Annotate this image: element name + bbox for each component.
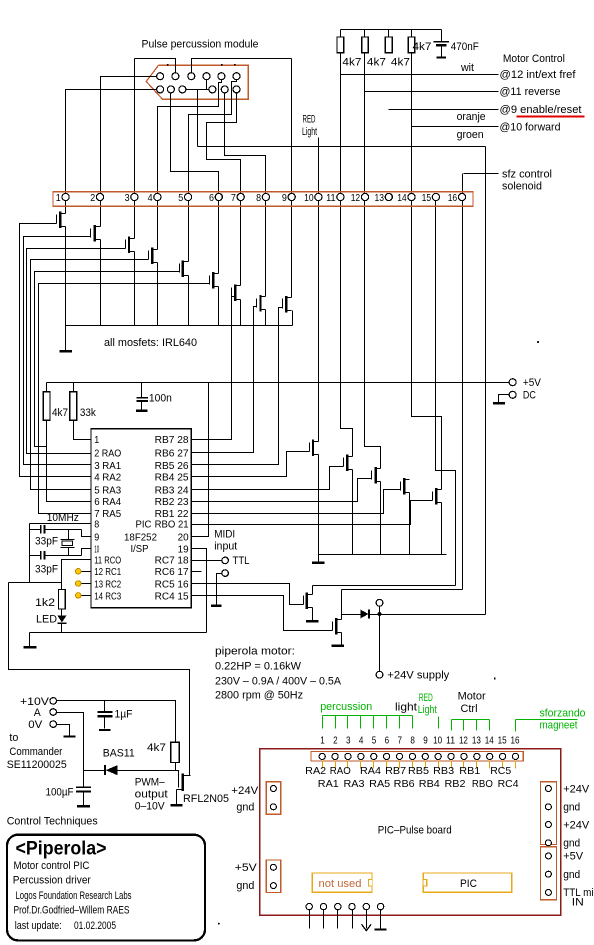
wire: PIC pin 16 RC5 to M15 gate xyxy=(192,584,304,605)
resistor R3 4k7 top lead xyxy=(388,30,390,37)
wire: PIC pin 8 VSS to crystal ground column xyxy=(30,523,91,525)
svg-text:01.02.2005: 01.02.2005 xyxy=(74,920,116,932)
wire: M9 source to bus xyxy=(292,311,294,326)
svg-text:10MHz: 10MHz xyxy=(47,512,79,524)
ground under M1 source (mosfet source bus ground) xyxy=(59,350,72,353)
svg-text:RBO: RBO xyxy=(472,778,493,790)
connector strip 1-16 outline xyxy=(53,192,473,207)
connector strip pin circles 1-16 xyxy=(62,193,69,200)
capacitor C4 100n top lead xyxy=(141,383,143,398)
svg-text:11: 11 xyxy=(326,192,336,204)
wire: PIC pin 11 RC0 to LED resistor xyxy=(62,560,91,590)
node: crystal ground to PWM ground link xyxy=(9,582,62,584)
svg-text:13 RC2: 13 RC2 xyxy=(94,578,121,590)
capacitor C5 470nF top lead xyxy=(441,30,443,42)
capacitor C4 100n plates xyxy=(136,397,148,399)
svg-text:4k7: 4k7 xyxy=(391,56,410,68)
wire: M12 gate to PIC pin 23 RB2 xyxy=(192,479,372,502)
module connector bottom row pin circles B1-B6 xyxy=(157,86,164,93)
capacitor C5 bottom lead and end bar xyxy=(441,46,443,58)
svg-text:Percussion driver: Percussion driver xyxy=(13,874,91,886)
svg-text:PIC: PIC xyxy=(136,519,152,531)
wire: C1 to PIC pin 9 OSC1 xyxy=(82,530,91,537)
capacitor C6 1uF plates xyxy=(98,711,113,713)
svg-text:piperola motor:: piperola motor: xyxy=(215,645,295,657)
wire: source bus for M10-M14 xyxy=(319,554,447,556)
svg-text:gnd: gnd xyxy=(236,802,254,814)
green bracket percussion pins 1-8 xyxy=(323,715,413,717)
svg-text:11: 11 xyxy=(446,734,455,746)
wire: M14 source to bus xyxy=(441,503,443,555)
board right connector block 1 xyxy=(540,782,556,845)
wire: PIC pin 15 RC4 to M16 gate xyxy=(192,596,333,631)
svg-text:RED: RED xyxy=(419,692,433,704)
wire: PIC pin 20 MIDI input from +5V rail xyxy=(192,383,209,537)
wire: 0V to ground xyxy=(57,725,70,736)
svg-text:to: to xyxy=(9,732,18,744)
svg-text:oranje: oranje xyxy=(457,111,486,123)
svg-text:1µF: 1µF xyxy=(115,708,133,720)
svg-text:RAO: RAO xyxy=(330,765,351,777)
svg-text:RA3: RA3 xyxy=(344,778,365,790)
svg-text:RBO 21: RBO 21 xyxy=(155,519,189,531)
wire: M14 gate to PIC pin 21 RB0 xyxy=(192,501,433,525)
svg-text:11 RCO: 11 RCO xyxy=(94,555,121,567)
ground under M15 xyxy=(306,620,319,623)
wire: Q1 source to ground xyxy=(176,790,178,805)
svg-text:8: 8 xyxy=(256,192,261,204)
svg-text:6 RA4: 6 RA4 xyxy=(94,496,121,508)
green bracket motor ctrl pins 11-14 xyxy=(452,719,490,721)
wire: RA4 pullup node down to PIC pin 6 RA4 xyxy=(47,421,91,502)
module connector top row pin circles T1-T6 xyxy=(157,73,164,80)
chip socket: PIC xyxy=(423,873,511,892)
capacitor C7 100uF plates xyxy=(76,786,91,788)
wire: @12 int/ext fref line from R1 / strip pin 11 xyxy=(341,74,499,76)
svg-text:RA4: RA4 xyxy=(360,765,381,777)
svg-text:gnd: gnd xyxy=(563,802,580,814)
mosfet M3 IRL640 xyxy=(126,237,135,254)
capacitor C5 470nF plates xyxy=(433,41,449,43)
svg-text:1k2: 1k2 xyxy=(35,597,55,609)
svg-text:8: 8 xyxy=(410,734,415,746)
wire: M7 gate to PIC pin 28 RB7 xyxy=(231,296,233,298)
wire: TTL return to ground xyxy=(217,574,222,605)
mosfet M14 IRL640 xyxy=(433,488,442,505)
svg-text:9: 9 xyxy=(94,532,99,544)
ground under C7 100uF xyxy=(77,805,90,807)
svg-text:RB4: RB4 xyxy=(419,778,440,790)
terminal circle +10V xyxy=(50,698,57,705)
svg-text:wit: wit xyxy=(460,62,474,74)
wire: strip pin 16 down to sforzando mosfet M16 drain rail xyxy=(462,174,464,590)
wire: pin T6 jog down-left to strip pin 5 (node P5) xyxy=(189,80,237,262)
wire: M6 source to bus xyxy=(218,287,220,326)
wire: sfz control line to strip pin 16 xyxy=(464,173,499,175)
mosfet M8 IRL640 xyxy=(257,295,266,312)
diode D1 BAS11 xyxy=(104,765,106,775)
svg-text:RB3 24: RB3 24 xyxy=(155,484,189,496)
svg-text:0–10V: 0–10V xyxy=(135,800,166,812)
svg-text:input: input xyxy=(214,540,237,552)
svg-text:RB2 23: RB2 23 xyxy=(155,496,189,508)
terminal circle TTL xyxy=(222,557,229,564)
svg-text:6: 6 xyxy=(209,192,214,204)
terminal circle above +24V junction xyxy=(379,607,381,613)
wire: @9 enable/reset line from R3 / strip pin 13 xyxy=(389,109,499,111)
orange pin ticks xyxy=(322,761,324,769)
svg-text:7: 7 xyxy=(231,192,236,204)
svg-text:100µF: 100µF xyxy=(46,787,74,799)
svg-text:2: 2 xyxy=(333,734,338,746)
wire: M7 source to bus xyxy=(240,300,242,326)
svg-text:8: 8 xyxy=(94,519,99,531)
mosfet M16 IRL640 xyxy=(333,618,342,635)
wire: groen net down right side to flyback diode line xyxy=(485,147,487,615)
stray dot right of title box xyxy=(218,923,220,925)
svg-text:4k7: 4k7 xyxy=(52,407,68,419)
svg-text:12: 12 xyxy=(351,192,361,204)
svg-text:10: 10 xyxy=(433,734,442,746)
svg-text:+5V: +5V xyxy=(563,851,584,863)
wire: M4 gate to PIC pin 5 RA3 xyxy=(31,260,149,490)
svg-text:DC: DC xyxy=(523,390,536,402)
svg-text:5: 5 xyxy=(178,192,183,204)
resistor R2 4k7 xyxy=(362,37,369,53)
wire: M13 gate to PIC pin 22 RB1 xyxy=(192,490,401,514)
mosfet M7 IRL640 xyxy=(232,284,241,301)
wire: digital ground rail xyxy=(30,632,207,634)
svg-text:PWM–: PWM– xyxy=(135,776,166,788)
svg-text:0.22HP = 0.16kW: 0.22HP = 0.16kW xyxy=(215,660,302,672)
wire: PIC pin 18 RC7 to TTL terminal xyxy=(192,560,222,562)
resistor R4 4k7 xyxy=(408,37,415,53)
wire: strip pin 15 down to mosfet M15 drain rail xyxy=(436,201,456,586)
wire: M9 gate to PIC pin 26 RB5 xyxy=(192,308,283,465)
svg-text:13: 13 xyxy=(375,192,385,204)
crystal X1 bottom lead xyxy=(68,548,70,556)
wire: M8 gate to PIC pin 27 RB6 xyxy=(192,307,257,453)
svg-text:1: 1 xyxy=(94,434,99,446)
mosfet M9 IRL640 xyxy=(283,296,292,313)
resistor R5 4k7 (RA4 pullup) top lead xyxy=(46,383,48,392)
svg-text:4 RA2: 4 RA2 xyxy=(94,472,121,484)
svg-text:gnd: gnd xyxy=(563,838,580,850)
wire: RED light rail H4 (groen net) xyxy=(198,146,486,148)
wire: +10V to 4k7 pullup xyxy=(57,701,176,743)
svg-text:RB1: RB1 xyxy=(459,765,480,777)
crystal X1 plates and body xyxy=(61,539,75,541)
board connector pin circles 1-16 xyxy=(319,753,325,759)
wire: M1 source down to ground xyxy=(65,227,67,351)
svg-text:sfz control: sfz control xyxy=(502,169,552,181)
svg-text:I/SP: I/SP xyxy=(131,543,149,555)
svg-text:18F252: 18F252 xyxy=(124,531,157,543)
chip socket: not used xyxy=(312,873,372,892)
svg-text:RC5: RC5 xyxy=(490,765,511,777)
svg-text:Commander: Commander xyxy=(9,746,62,758)
svg-text:A: A xyxy=(34,707,42,719)
wire: M2 source to bus xyxy=(100,240,102,326)
svg-text:RA5: RA5 xyxy=(369,778,390,790)
svg-text:RB3: RB3 xyxy=(433,765,454,777)
svg-text:12 RC1: 12 RC1 xyxy=(94,566,121,578)
svg-text:2 RAO: 2 RAO xyxy=(94,448,121,460)
svg-text:solenoid: solenoid xyxy=(502,181,542,193)
svg-text:<Piperola>: <Piperola> xyxy=(16,839,107,860)
stray dot near sforzando column xyxy=(537,341,539,343)
svg-text:15: 15 xyxy=(422,192,432,204)
svg-text:14: 14 xyxy=(485,734,494,746)
wire: BAS11 diode line xyxy=(84,770,105,772)
svg-text:RB7: RB7 xyxy=(385,765,406,777)
svg-text:230V – 0.9A / 400V – 0.5A: 230V – 0.9A / 400V – 0.5A xyxy=(215,675,342,687)
wire: RED light stub to rail xyxy=(318,138,320,147)
wire: M12 source to bus xyxy=(380,482,382,555)
mosfet M11 IRL640 xyxy=(344,455,353,472)
wire: junction drop from B3-B4 wire down to RED light rail xyxy=(197,90,199,147)
board connector strip xyxy=(311,752,523,762)
wire: flyback diode line sforzando to +24V xyxy=(342,614,361,616)
svg-text:4k7: 4k7 xyxy=(413,41,432,53)
stray dot near +24V supply xyxy=(494,678,496,680)
wire: module box right edge down to strip pin 9 (node P9) xyxy=(291,59,293,298)
mosfet M2 IRL640 xyxy=(91,225,101,242)
svg-text:5: 5 xyxy=(372,734,377,746)
wire: pin T4 stub down to B3-B4 wire xyxy=(206,80,208,90)
wire: PIC pin 19 VSS to ground rail xyxy=(192,549,207,633)
board outline PIC-Pulse board xyxy=(260,749,561,916)
ground under right source bus xyxy=(312,561,325,564)
resistor R5 4k7 pullup xyxy=(43,392,50,421)
svg-text:4k7: 4k7 xyxy=(342,56,361,68)
resistor R1 4k7 xyxy=(337,37,344,53)
svg-text:0V: 0V xyxy=(28,719,43,731)
wire: M10 gate to PIC pin 25 RB4 xyxy=(192,452,310,477)
title box frame xyxy=(7,835,205,941)
wire: B3 to B4 xyxy=(183,89,213,91)
wire: M1 gate to PIC pin 4 RA2 xyxy=(20,224,91,477)
terminal circle DC return xyxy=(509,391,516,398)
svg-text:4k7: 4k7 xyxy=(147,742,166,754)
wire: top-row pin T2 up to module box segment 1 xyxy=(135,59,176,73)
resistor R1 4k7 top lead xyxy=(340,30,342,37)
svg-text:5 RA3: 5 RA3 xyxy=(94,484,121,496)
LED D2 top lead xyxy=(61,609,63,616)
resistor R6 33k top lead xyxy=(73,383,75,392)
board right connector block 2 xyxy=(540,847,556,900)
svg-text:Motor: Motor xyxy=(458,691,486,703)
capacitor C4 bottom lead xyxy=(141,402,143,410)
svg-text:last update:: last update: xyxy=(15,920,62,932)
ground under C4 100n xyxy=(136,410,148,412)
svg-text:3 RA1: 3 RA1 xyxy=(94,460,121,472)
green bracket sforzando pin 16 xyxy=(516,719,578,721)
wire: strip pin 10 down to mosfet M10 drain xyxy=(318,147,320,442)
wire: M2 gate to PIC pin 3 RA1 xyxy=(24,237,91,465)
svg-text:100n: 100n xyxy=(149,393,172,405)
svg-text:Motor Control: Motor Control xyxy=(503,53,565,65)
svg-text:RC4: RC4 xyxy=(498,778,519,790)
svg-text:RC7 18: RC7 18 xyxy=(155,555,189,567)
wire: pin B6 jog to strip pin 7 (node P7) xyxy=(207,93,241,286)
wire: crystal ground column xyxy=(29,524,31,583)
svg-text:@12 int/ext fref: @12 int/ext fref xyxy=(500,69,577,81)
mosfet M13 IRL640 xyxy=(401,478,410,495)
crystal X1 10MHz top lead xyxy=(68,530,70,540)
wire: pin T5 jog down-left to strip pin 4 (node P4) xyxy=(158,80,222,250)
mosfet M15 IRL640 xyxy=(304,593,313,610)
green tick RED light pin 10 xyxy=(438,717,440,729)
wire: R2 to strip pin 12 and mosfet M12 drain xyxy=(365,53,381,469)
svg-text:SE11200025: SE11200025 xyxy=(7,759,67,771)
svg-text:BAS11: BAS11 xyxy=(103,747,135,759)
ground at DC terminal xyxy=(493,402,505,404)
svg-text:13: 13 xyxy=(472,734,481,746)
svg-text:sforzando: sforzando xyxy=(540,708,586,720)
svg-text:Motor control PIC: Motor control PIC xyxy=(14,860,90,872)
svg-text:33k: 33k xyxy=(80,407,96,419)
capacitor C6 1uF top lead xyxy=(104,701,106,712)
wire: M13 source to bus xyxy=(409,493,411,555)
wire: +24V supply down to terminal xyxy=(379,615,381,672)
ground under M16 xyxy=(331,644,344,647)
diode D3 flyback xyxy=(361,610,369,619)
mosfet M4 IRL640 xyxy=(149,248,158,265)
ground under 0V terminal xyxy=(64,735,76,737)
svg-text:15: 15 xyxy=(498,734,507,746)
svg-text:6: 6 xyxy=(385,734,390,746)
wire: M3 source to bus xyxy=(134,252,136,326)
svg-text:not used: not used xyxy=(319,878,362,890)
resistor R7 1k2 xyxy=(59,589,66,609)
svg-text:4: 4 xyxy=(359,734,364,746)
ground bar under board pin 6 xyxy=(375,928,387,930)
svg-text:+24V: +24V xyxy=(563,819,590,831)
svg-text:RED: RED xyxy=(303,113,316,125)
node junction dot at +24V supply xyxy=(378,612,382,616)
svg-text:groen: groen xyxy=(457,129,484,141)
svg-text:RA1: RA1 xyxy=(318,778,339,790)
svg-text:RC6 17: RC6 17 xyxy=(155,566,189,578)
wire: C2 to PIC pin 10 OSC2 xyxy=(82,549,91,556)
svg-text:RB7 28: RB7 28 xyxy=(155,434,189,446)
resistor R6 33k (MCLR) xyxy=(70,392,77,421)
svg-text:RB5 26: RB5 26 xyxy=(155,460,189,472)
wire: M15 drain rail to strip pin 15 wire xyxy=(312,586,314,595)
svg-text:RB6: RB6 xyxy=(394,778,415,790)
svg-text:Logos Foundation Research Labs: Logos Foundation Research Labs xyxy=(16,890,132,902)
svg-text:16: 16 xyxy=(448,192,458,204)
svg-text:470nF: 470nF xyxy=(451,41,479,53)
svg-text:MIDI: MIDI xyxy=(214,528,235,540)
wire: top-row pin T3 up to module box segment 2 xyxy=(192,59,292,73)
svg-text:Pulse percussion module: Pulse percussion module xyxy=(142,39,259,51)
svg-text:IN: IN xyxy=(572,896,584,908)
svg-text:+24V supply: +24V supply xyxy=(387,670,449,682)
wire: pin B1 left then down to strip pin 1 xyxy=(66,90,157,214)
svg-text:1: 1 xyxy=(320,734,325,746)
wire: A terminal to BAS11 node and 100uF xyxy=(57,713,84,787)
svg-text:LED: LED xyxy=(36,614,57,626)
svg-text:RC4 15: RC4 15 xyxy=(155,590,189,602)
svg-text:RB2: RB2 xyxy=(445,778,466,790)
svg-text:@11 reverse: @11 reverse xyxy=(500,86,561,98)
svg-text:RA2: RA2 xyxy=(305,765,326,777)
capacitor C1 33pF line to OSC1 xyxy=(30,529,41,531)
svg-text:7: 7 xyxy=(398,734,403,746)
wire: LED cathode to ground rail xyxy=(61,624,63,633)
svg-text:Light: Light xyxy=(418,704,437,716)
svg-text:output: output xyxy=(135,788,168,800)
svg-text:12: 12 xyxy=(459,734,468,746)
svg-text:Prof.Dr.Godfried–Willem RAES: Prof.Dr.Godfried–Willem RAES xyxy=(14,905,130,917)
wire: M4 source to bus xyxy=(157,263,159,326)
svg-text:16: 16 xyxy=(510,734,519,746)
svg-text:gnd: gnd xyxy=(236,880,254,892)
svg-text:14 RC3: 14 RC3 xyxy=(94,590,121,602)
module connector index dots xyxy=(167,64,169,66)
wire: M15 source to ground xyxy=(312,608,314,621)
svg-text:+5V: +5V xyxy=(235,862,258,874)
wire: BAS11 node to Q1 gate xyxy=(176,771,179,777)
LED D2 xyxy=(57,616,66,623)
wire: R1 to strip pin 11 and mosfet M11 drain xyxy=(341,53,353,457)
terminal circle TTL return xyxy=(222,570,229,577)
wire: M5 source to bus xyxy=(188,276,190,326)
terminal circle +5V xyxy=(509,379,516,386)
svg-text:3: 3 xyxy=(125,192,130,204)
mosfet Q1 RFL2N05 xyxy=(177,774,191,792)
wire: RC2 PWM link down left side xyxy=(9,583,190,776)
svg-text:3: 3 xyxy=(346,734,351,746)
wire: M5 gate to RA4 pullup node xyxy=(35,272,180,447)
svg-text:RB5: RB5 xyxy=(408,765,429,777)
svg-text:9: 9 xyxy=(282,192,287,204)
svg-text:4: 4 xyxy=(148,192,153,204)
wire: @11 reverse line from R2 / strip pin 12 xyxy=(365,91,499,93)
svg-text:TTL: TTL xyxy=(233,555,250,567)
capacitor C2 33pF line to OSC2 xyxy=(30,555,41,557)
svg-text:+5V: +5V xyxy=(523,377,542,389)
wire: pin T1 left then down to strip pin 2 xyxy=(101,77,157,227)
board left power block 24V xyxy=(266,782,280,815)
capacitor C6 bottom lead xyxy=(104,717,106,729)
svg-text:magneet: magneet xyxy=(540,720,578,732)
svg-text:+24V: +24V xyxy=(563,783,590,795)
svg-text:20: 20 xyxy=(178,532,189,544)
wire: M11 gate to PIC pin 24 RB3 xyxy=(192,467,344,490)
svg-text:RC5 16: RC5 16 xyxy=(155,578,189,590)
svg-text:gnd: gnd xyxy=(563,869,580,881)
mosfet M6 IRL640 xyxy=(210,272,219,289)
svg-text:33pF: 33pF xyxy=(35,563,58,575)
wire: source bus for M1-M9 xyxy=(66,325,293,327)
svg-text:+24V: +24V xyxy=(231,785,259,797)
svg-text:PIC–Pulse board: PIC–Pulse board xyxy=(378,824,452,836)
connector J1 pulse percussion module outline xyxy=(146,65,248,99)
terminal circle A xyxy=(50,709,57,716)
board left power block 5V xyxy=(266,860,280,893)
red underline under @9 enable/reset xyxy=(517,116,585,118)
wire: M11 source to bus xyxy=(352,470,354,555)
mosfet M10 IRL640 xyxy=(310,440,319,457)
svg-text:9: 9 xyxy=(423,734,428,746)
wire: M3 gate to PIC pin 2 RA0 xyxy=(27,249,126,454)
capacitor C1 33pF plates xyxy=(40,525,42,534)
wire: PIC pin 17 RC6 stub xyxy=(192,571,202,573)
svg-text:RFL2N05: RFL2N05 xyxy=(183,793,229,805)
